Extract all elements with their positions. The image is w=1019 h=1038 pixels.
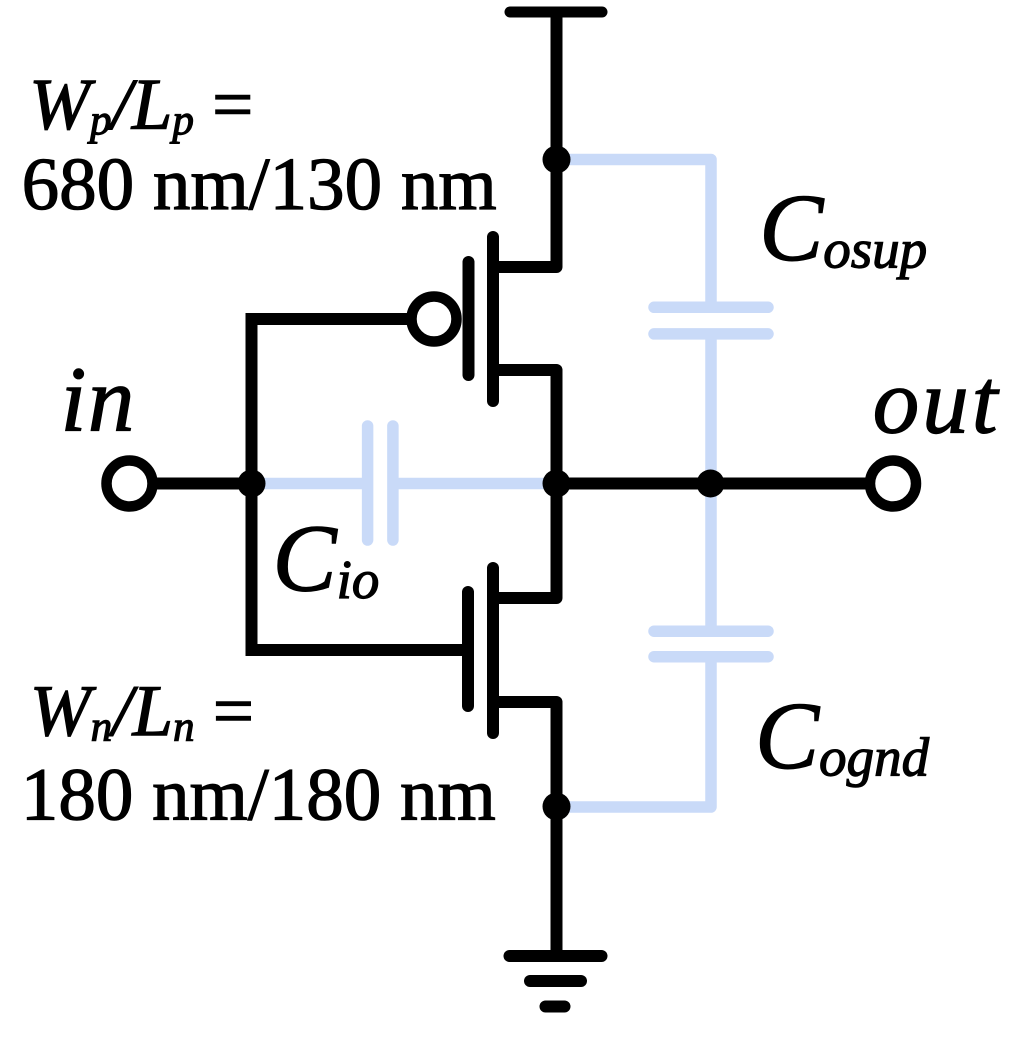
Cosup top plate (654, 302, 768, 314)
Cosup bottom plate (654, 328, 768, 340)
Cio right plate (387, 426, 399, 540)
junction drain node (node out) (543, 470, 571, 498)
M1 gate bar (463, 262, 475, 375)
transistor M2 (NMOS) (468, 568, 557, 733)
M2 drain stub (493, 592, 557, 604)
M1 channel bar (487, 237, 499, 401)
wire Cognd bottom lead (bottom plate to ground node) (557, 663, 712, 807)
wire in terminal to gate node (157, 478, 252, 490)
ground bar middle (530, 975, 581, 987)
Cio left plate (362, 426, 374, 540)
M2 gate bar (462, 592, 474, 706)
value label 680 nm/130 nm (25, 159, 496, 210)
Cognd bottom plate (654, 651, 768, 663)
wire Cognd top lead (output node to top plate) (705, 484, 717, 626)
wire output node to out terminal (557, 478, 866, 490)
wire Cosup bottom lead (bottom plate to output node) (705, 340, 717, 484)
value label Wn/Ln = (35, 687, 251, 741)
wire supply rail to PMOS source (551, 12, 563, 267)
M2 source stub (493, 696, 557, 708)
capacitor Cio (parasitic input-output, blue) (252, 426, 557, 540)
value label 180 nm/180 nm (27, 770, 494, 821)
wire gate net (input to both gates) (252, 319, 463, 650)
ground bar bottom (546, 1001, 565, 1013)
M1 drain stub (493, 364, 557, 376)
junction out wire / Cosup-Cognd tap (697, 470, 725, 498)
wire PMOS drain to NMOS drain (output node vertical) (551, 370, 563, 598)
ground bar top (510, 950, 602, 962)
M2 channel bar (487, 568, 499, 733)
transistor M1 (PMOS) (469, 237, 557, 401)
wire Cio right lead (right plate to output node) (399, 478, 557, 490)
ground symbol (510, 956, 602, 1007)
node label in (66, 369, 131, 431)
wire Cio left lead (gate node to left plate) (252, 478, 363, 490)
Cognd top plate (654, 625, 768, 637)
capacitor Cognd (parasitic output-ground, blue) (557, 484, 769, 808)
capacitor Cosup (parasitic output-supply, blue) (557, 160, 769, 484)
label Cio (278, 527, 378, 599)
junction ground node (543, 793, 571, 821)
junction gate node (node in) (238, 470, 266, 498)
terminal in (107, 461, 153, 507)
wire Cosup top lead (supply node to top plate) (557, 160, 712, 303)
wire NMOS source to ground (551, 702, 563, 956)
junction supply node (543, 146, 571, 174)
label Cosup (765, 196, 926, 279)
M1 source stub (493, 261, 557, 273)
terminal out (870, 461, 916, 507)
M1 gate inversion bubble (412, 297, 457, 342)
value label Wp/Lp = (34, 81, 250, 144)
node label out (876, 380, 1000, 434)
supply rail VDD (510, 7, 602, 18)
label Cognd (760, 704, 929, 787)
